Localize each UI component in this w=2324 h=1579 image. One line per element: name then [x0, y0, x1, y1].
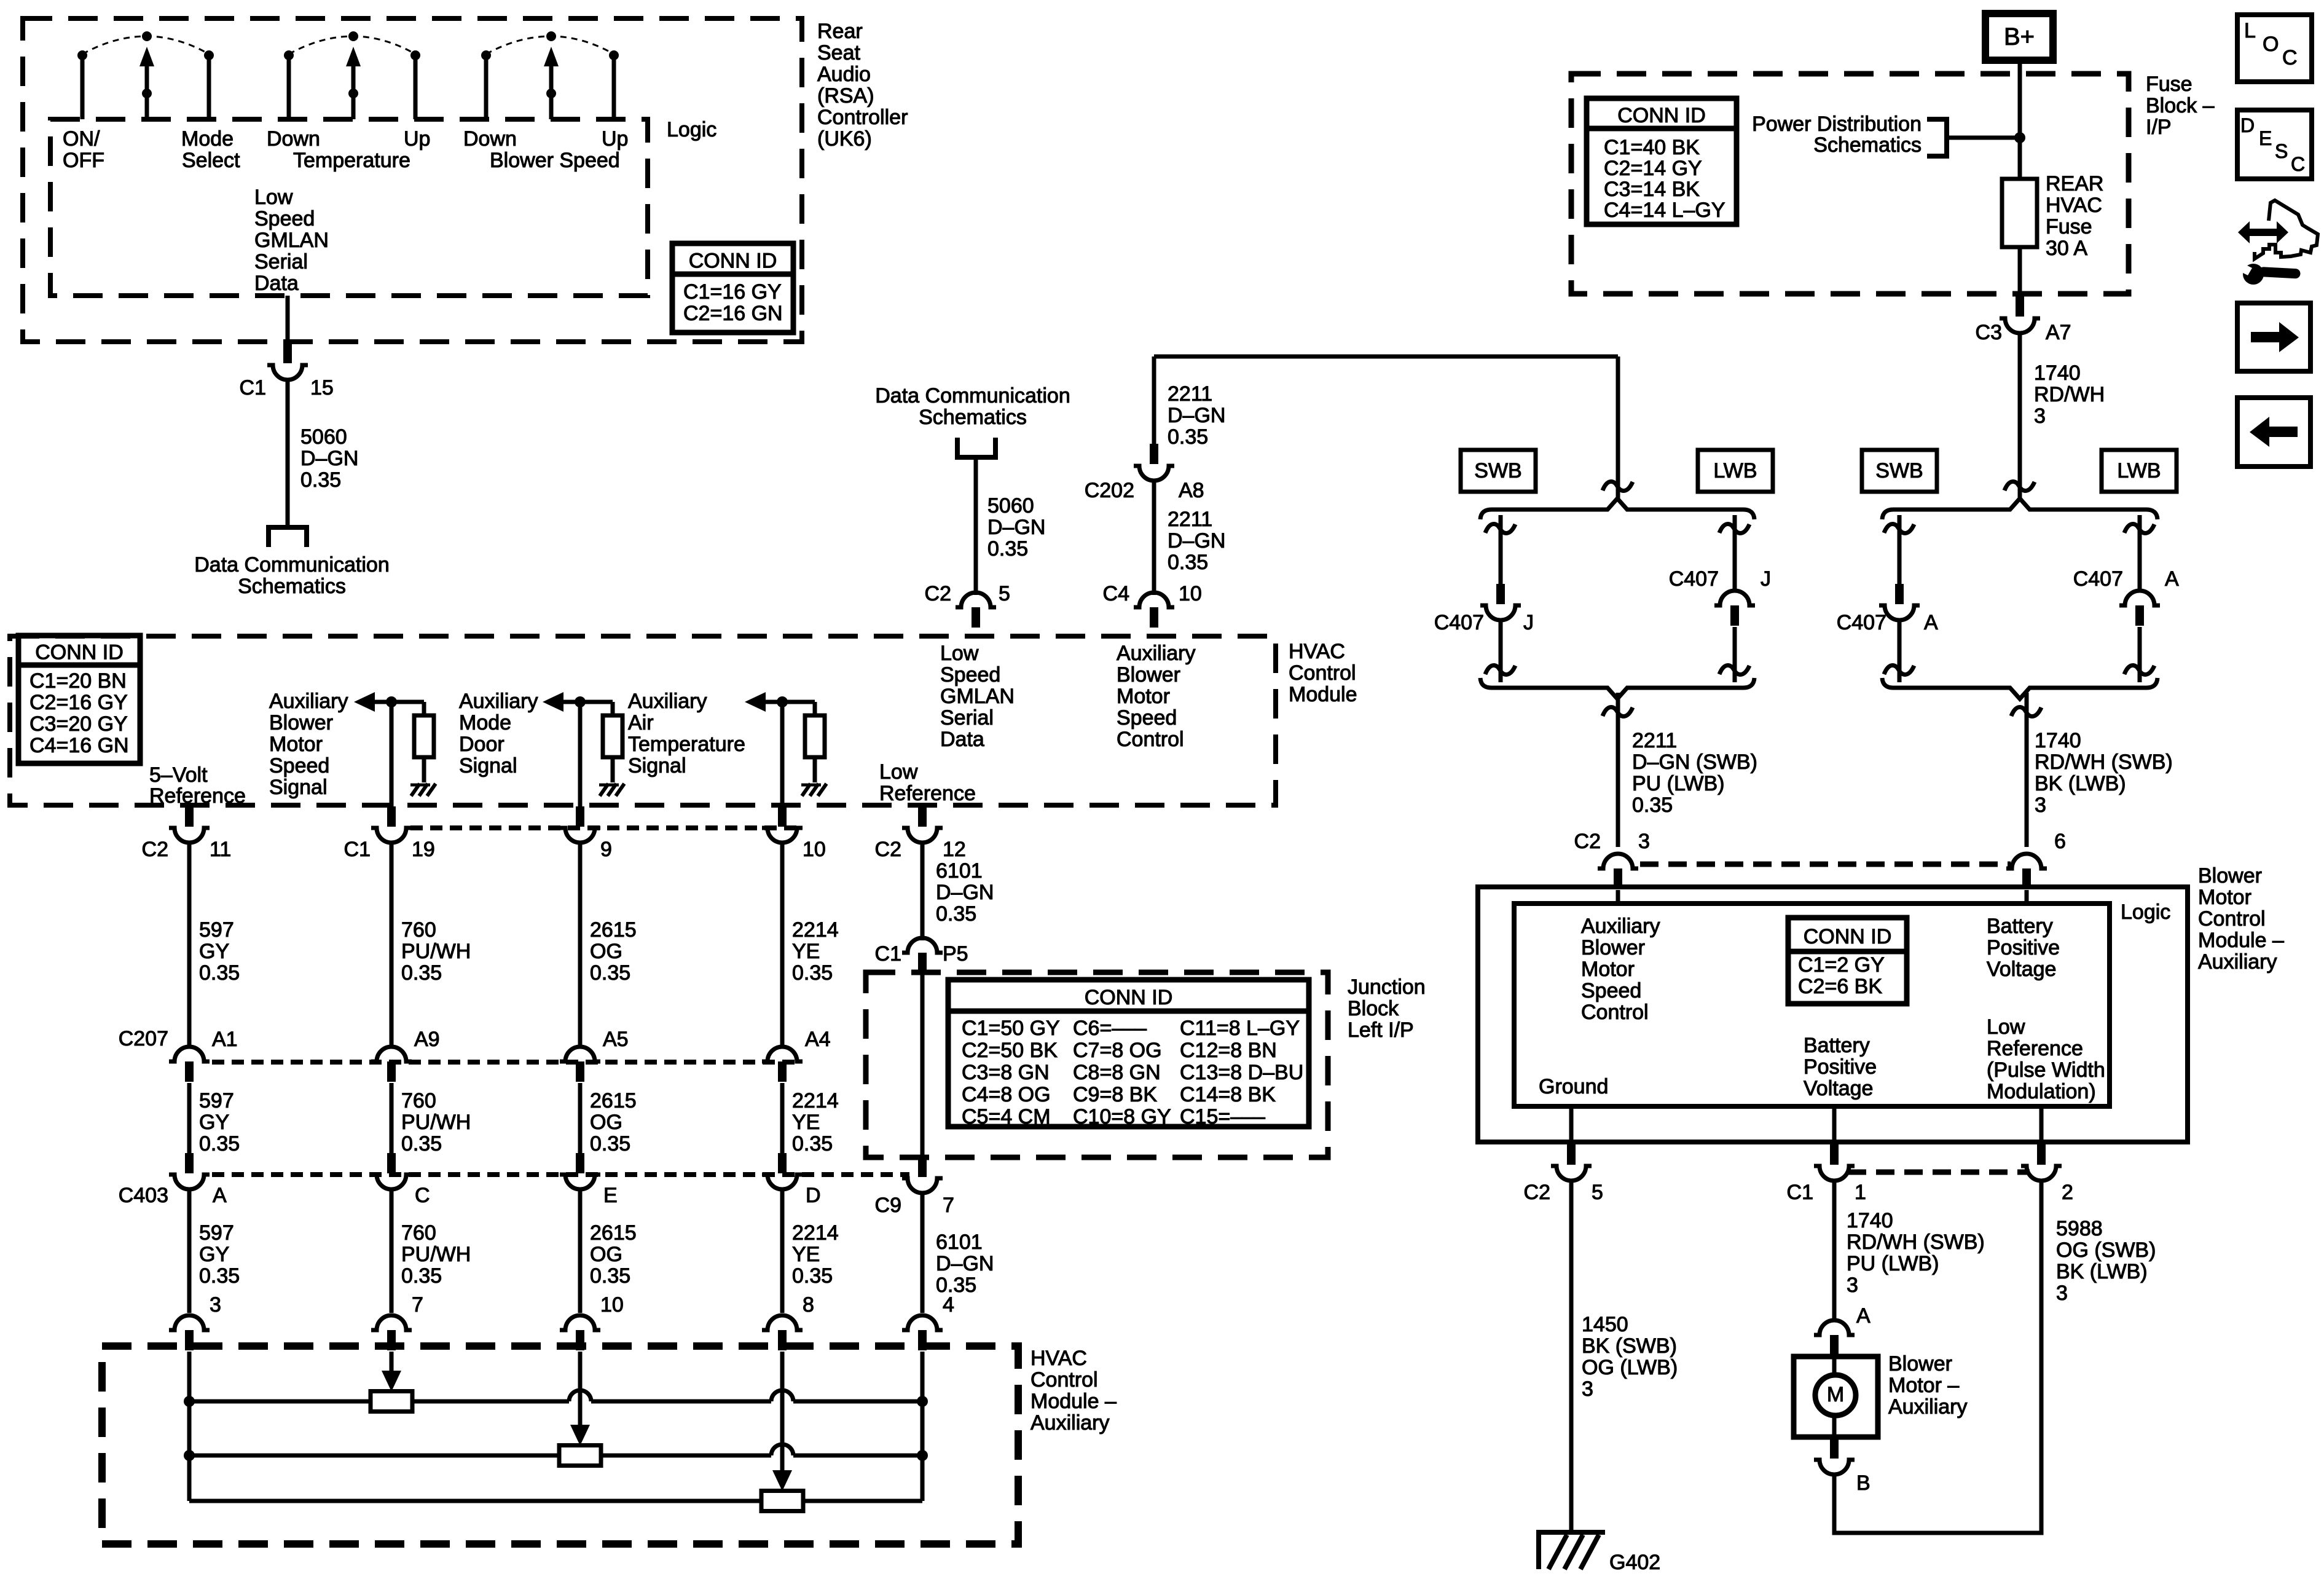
- svg-text:3: 3: [210, 1293, 221, 1317]
- svg-text:GY: GY: [199, 940, 229, 963]
- svg-text:CONN ID: CONN ID: [1804, 925, 1892, 948]
- wire 1 inside aux box: [187, 1352, 192, 1501]
- icon left-arrow box: [2237, 398, 2310, 467]
- connector row C403 dashed line: [212, 1172, 909, 1177]
- svg-text:2214: 2214: [792, 1089, 839, 1112]
- svg-text:C1: C1: [1787, 1181, 1813, 1204]
- svg-text:Positive: Positive: [1987, 936, 2060, 959]
- svg-text:C4=16 GN: C4=16 GN: [29, 734, 129, 757]
- svg-text:PU (LWB): PU (LWB): [1632, 772, 1724, 795]
- resistor pot 3: [761, 1491, 803, 1511]
- wire module out x=3322: [2039, 1106, 2044, 1144]
- connector C9 pin 7 (junction block): [918, 1157, 927, 1177]
- svg-text:2615: 2615: [590, 918, 637, 942]
- svg-text:Data: Data: [254, 272, 299, 295]
- connector blower pin 1: [1830, 1144, 1839, 1165]
- wire 6 into module: [2025, 890, 2029, 904]
- svg-text:D: D: [2240, 114, 2255, 136]
- svg-text:(UK6): (UK6): [817, 127, 872, 151]
- svg-text:597: 597: [199, 1089, 234, 1112]
- wire power distribution branch: [1947, 136, 2020, 140]
- motor M circle: [1815, 1375, 1856, 1416]
- svg-text:B+: B+: [2004, 23, 2035, 50]
- ground G402 symbol: [1536, 1530, 1605, 1535]
- svg-text:Speed: Speed: [269, 754, 329, 778]
- svg-text:Auxiliary: Auxiliary: [1888, 1395, 1967, 1419]
- resistor pot 1: [371, 1392, 412, 1412]
- svg-text:Auxiliary: Auxiliary: [1030, 1411, 1109, 1435]
- svg-text:Low: Low: [879, 760, 918, 784]
- svg-text:Control: Control: [1581, 1001, 1649, 1024]
- signal arrow+resistor+ground for wire 4: [745, 692, 766, 712]
- wire segment C9-7 down: [921, 1193, 925, 1313]
- svg-text:3: 3: [2056, 1282, 2068, 1305]
- svg-text:Down: Down: [267, 127, 320, 151]
- wire 4 into aux box: [780, 1352, 785, 1471]
- svg-text:30 A: 30 A: [2046, 237, 2087, 260]
- svg-text:A5: A5: [603, 1028, 629, 1051]
- connector C403 pin E: [576, 1153, 584, 1173]
- wire segment C207-C403 x=637: [390, 1083, 394, 1154]
- icon left-arrow: [2250, 417, 2298, 447]
- brace bottom 2: [1882, 678, 2157, 699]
- svg-text:A: A: [1924, 611, 1938, 634]
- svg-text:Blower: Blower: [1888, 1352, 1952, 1376]
- wire RSA serial data: [286, 296, 290, 343]
- wire 2 inside HVAC box: [390, 702, 394, 806]
- svg-text:Control: Control: [1289, 661, 1356, 685]
- svg-text:C9: C9: [875, 1194, 901, 1217]
- wire segment to C207 x=944: [578, 844, 583, 1045]
- svg-text:Voltage: Voltage: [1804, 1077, 1873, 1100]
- svg-text:PU (LWB): PU (LWB): [1847, 1252, 1939, 1275]
- connector HVAC-aux pin at x=637: [387, 1330, 396, 1350]
- LWB box 1: [1698, 450, 1773, 492]
- svg-text:1740: 1740: [2035, 729, 2081, 752]
- svg-text:CONN ID: CONN ID: [35, 641, 124, 664]
- svg-text:11: 11: [210, 838, 231, 861]
- svg-text:0.35: 0.35: [401, 1132, 442, 1156]
- svg-text:P5: P5: [943, 942, 968, 966]
- wire inside junction block: [921, 974, 925, 1156]
- svg-text:RD/WH (SWB): RD/WH (SWB): [2035, 750, 2173, 774]
- svg-text:C6=–––: C6=–––: [1073, 1017, 1147, 1040]
- icon right-arrow box: [2237, 303, 2310, 371]
- connector C1 pin P5 (junction block): [918, 953, 927, 973]
- svg-text:Blower Speed: Blower Speed: [490, 149, 620, 172]
- svg-text:Low: Low: [1987, 1015, 2025, 1039]
- svg-text:E: E: [2259, 127, 2272, 149]
- svg-text:C4: C4: [1103, 582, 1129, 605]
- svg-text:C13=8 D–BU: C13=8 D–BU: [1180, 1061, 1303, 1084]
- connector HVAC pin 9: [576, 806, 584, 827]
- dashed connector line C2-3 to 6: [1640, 862, 2011, 867]
- svg-text:2615: 2615: [590, 1089, 637, 1112]
- svg-text:Serial: Serial: [940, 706, 994, 730]
- svg-text:Blower: Blower: [269, 711, 333, 734]
- svg-text:C202: C202: [1085, 479, 1134, 502]
- svg-text:B: B: [1856, 1471, 1871, 1495]
- svg-text:0.35: 0.35: [300, 468, 341, 492]
- blower module outer box: [1478, 887, 2188, 1142]
- wire C407-A left upper: [1898, 515, 1902, 584]
- svg-text:Positive: Positive: [1804, 1055, 1877, 1079]
- fuse REAR HVAC rect: [2002, 179, 2037, 247]
- svg-text:0.35: 0.35: [199, 1264, 240, 1288]
- svg-text:2615: 2615: [590, 1221, 637, 1245]
- svg-text:RD/WH: RD/WH: [2034, 383, 2105, 406]
- connector C202 pin A8: [1150, 444, 1158, 464]
- svg-text:Data: Data: [940, 728, 984, 751]
- svg-text:C3=8 GN: C3=8 GN: [962, 1061, 1050, 1084]
- blower module logic box: [1514, 904, 2110, 1106]
- svg-text:Control: Control: [1030, 1368, 1098, 1392]
- connector C4 pin 10 (HVAC): [1150, 607, 1158, 628]
- svg-text:6101: 6101: [936, 859, 983, 883]
- wire segment C403-HVACaux x=944: [578, 1189, 583, 1313]
- svg-text:CONN ID: CONN ID: [1617, 104, 1706, 127]
- wire brace2 to pin6: [2025, 693, 2029, 847]
- HVAC control module dashed box: [10, 636, 1276, 805]
- svg-text:A4: A4: [805, 1028, 831, 1051]
- svg-text:Auxiliary: Auxiliary: [1117, 642, 1195, 665]
- svg-text:A9: A9: [414, 1028, 440, 1051]
- svg-text:Down: Down: [463, 127, 517, 151]
- svg-text:Junction: Junction: [1348, 975, 1426, 999]
- svg-text:Module –: Module –: [1030, 1390, 1117, 1413]
- wire motor loop: [1834, 1181, 2041, 1533]
- connector HVAC-aux pin at x=308: [185, 1330, 194, 1350]
- svg-text:2211: 2211: [1168, 382, 1212, 406]
- svg-text:D–GN: D–GN: [936, 1252, 994, 1275]
- svg-text:0.35: 0.35: [590, 961, 630, 985]
- hop line1 over wire4: [771, 1390, 793, 1401]
- svg-text:GY: GY: [199, 1243, 229, 1266]
- svg-text:C7=8 OG: C7=8 OG: [1073, 1039, 1162, 1062]
- junction block CONN ID table: [948, 980, 1309, 1127]
- svg-text:0.35: 0.35: [936, 1274, 976, 1297]
- svg-text:C403: C403: [119, 1184, 168, 1207]
- connector C403 pin A: [185, 1153, 194, 1173]
- svg-text:C1: C1: [344, 838, 371, 861]
- svg-text:3: 3: [1638, 830, 1650, 853]
- icon right-arrow: [2251, 322, 2299, 352]
- svg-text:GMLAN: GMLAN: [254, 229, 329, 252]
- svg-text:GMLAN: GMLAN: [940, 685, 1015, 708]
- svg-text:Fuse: Fuse: [2146, 73, 2192, 96]
- svg-text:OG (LWB): OG (LWB): [1582, 1356, 1678, 1379]
- svg-text:(Pulse Width: (Pulse Width: [1987, 1058, 2105, 1082]
- svg-text:5: 5: [1592, 1181, 1603, 1204]
- connector HVAC-aux pin at x=1273: [778, 1330, 787, 1350]
- connector HVAC pin 10: [778, 806, 787, 827]
- svg-text:E: E: [603, 1184, 618, 1207]
- connector C403 pin D: [778, 1153, 787, 1173]
- svg-text:Signal: Signal: [269, 776, 328, 799]
- wire 4 inside HVAC box: [780, 702, 785, 806]
- svg-text:2211: 2211: [1632, 729, 1677, 752]
- junction dot power dist: [2014, 132, 2025, 143]
- svg-text:Battery: Battery: [1804, 1034, 1870, 1057]
- svg-text:A1: A1: [212, 1028, 238, 1051]
- wire segment to C207 x=308: [187, 844, 192, 1045]
- icon DESC box: [2237, 110, 2312, 179]
- svg-text:0.35: 0.35: [1168, 425, 1208, 449]
- svg-text:Data Communication: Data Communication: [194, 553, 389, 577]
- svg-text:CONN ID: CONN ID: [689, 250, 777, 273]
- svg-text:Up: Up: [602, 127, 628, 151]
- svg-text:4: 4: [943, 1293, 954, 1317]
- svg-text:LWB: LWB: [1713, 459, 1757, 482]
- svg-text:0.35: 0.35: [792, 1264, 833, 1288]
- svg-text:Schematics: Schematics: [1813, 133, 1922, 157]
- icon LOC box: [2237, 15, 2312, 82]
- wire 3 into aux box: [578, 1352, 583, 1426]
- svg-text:YE: YE: [792, 1111, 820, 1134]
- aux bus line 3: [189, 1499, 922, 1503]
- svg-text:Blower: Blower: [2198, 864, 2262, 888]
- svg-text:C407: C407: [2073, 567, 2123, 591]
- svg-text:Schematics: Schematics: [919, 406, 1027, 429]
- svg-text:Modulation): Modulation): [1987, 1080, 2096, 1103]
- svg-text:0.35: 0.35: [792, 961, 833, 985]
- svg-text:BK (LWB): BK (LWB): [2035, 772, 2126, 795]
- svg-text:A: A: [2165, 567, 2179, 591]
- svg-text:J: J: [1761, 567, 1771, 591]
- svg-text:1: 1: [1855, 1181, 1866, 1204]
- svg-text:Speed: Speed: [1117, 706, 1177, 730]
- svg-text:C407: C407: [1669, 567, 1719, 591]
- blower CONN ID table: [1788, 918, 1907, 1004]
- svg-text:Schematics: Schematics: [238, 575, 346, 598]
- brace top 1: [1480, 498, 1754, 519]
- wire segment C2-12 to C1-P5: [921, 844, 925, 940]
- wire 3 inside HVAC box: [578, 702, 583, 806]
- svg-text:Ground: Ground: [1539, 1075, 1608, 1098]
- svg-text:Voltage: Voltage: [1987, 958, 2056, 981]
- svg-text:Reference: Reference: [149, 784, 246, 808]
- signal arrow+resistor+ground for wire 3: [543, 692, 563, 712]
- svg-text:C4=14 L–GY: C4=14 L–GY: [1604, 199, 1725, 222]
- connector C207 pin A9: [387, 1061, 396, 1082]
- svg-text:C3=20 GY: C3=20 GY: [29, 712, 128, 736]
- connector HVAC pin 12: [918, 806, 927, 827]
- svg-text:C207: C207: [119, 1027, 168, 1050]
- svg-text:C2=16 GN: C2=16 GN: [683, 302, 783, 325]
- svg-text:C2=16 GY: C2=16 GY: [29, 691, 128, 714]
- svg-text:M: M: [1827, 1383, 1844, 1406]
- HVAC control module auxiliary dashed box: [102, 1346, 1018, 1544]
- svg-text:SWB: SWB: [1875, 459, 1923, 482]
- svg-text:OFF: OFF: [63, 149, 104, 172]
- connector pin 6 (blower module): [2022, 868, 2031, 889]
- RSA logic inner dashed box: [50, 119, 648, 296]
- svg-text:Left I/P: Left I/P: [1348, 1018, 1414, 1042]
- wire 2211 lower: [1152, 481, 1156, 595]
- svg-text:L: L: [2244, 19, 2256, 42]
- connector C407 pin A (LWB): [2135, 605, 2144, 626]
- off-page symbol Data Communication (left): [269, 527, 307, 547]
- svg-text:1450: 1450: [1582, 1313, 1628, 1336]
- svg-text:9: 9: [600, 838, 612, 861]
- svg-text:C4=8 OG: C4=8 OG: [962, 1083, 1051, 1106]
- svg-text:3: 3: [2034, 404, 2046, 428]
- squiggle wire 1740: [2004, 481, 2035, 490]
- svg-text:Power Distribution: Power Distribution: [1752, 112, 1922, 136]
- switch Blower Speed: [484, 55, 489, 119]
- svg-text:OG: OG: [590, 940, 622, 963]
- svg-text:OG (SWB): OG (SWB): [2056, 1238, 2156, 1262]
- junction dot w5-line2: [917, 1450, 928, 1461]
- svg-text:C407: C407: [1837, 611, 1886, 634]
- svg-text:C407: C407: [1434, 611, 1484, 634]
- connector C207 pin A1: [185, 1061, 194, 1082]
- svg-text:10: 10: [803, 838, 826, 861]
- svg-text:PU/WH: PU/WH: [401, 940, 471, 963]
- svg-text:0.35: 0.35: [1168, 551, 1208, 574]
- svg-text:597: 597: [199, 918, 234, 942]
- connector HVAC-aux pin at x=944: [576, 1330, 584, 1350]
- svg-text:RD/WH (SWB): RD/WH (SWB): [1847, 1231, 1985, 1254]
- wire segment to C207 x=1273: [780, 844, 785, 1045]
- svg-text:C5=4 CM: C5=4 CM: [962, 1105, 1051, 1128]
- connector C407 pin J (LWB): [1730, 605, 1739, 626]
- svg-text:1740: 1740: [1847, 1209, 1893, 1232]
- svg-text:C2: C2: [875, 838, 901, 861]
- brace bottom 1: [1480, 678, 1754, 699]
- svg-text:C10=8 GY: C10=8 GY: [1073, 1105, 1171, 1128]
- signal arrow+resistor+ground for wire 2: [354, 692, 375, 712]
- svg-text:Air: Air: [628, 711, 654, 734]
- svg-text:Block –: Block –: [2146, 94, 2215, 117]
- aux bus line 1: [189, 1400, 569, 1404]
- connector C3 pin A7: [2016, 296, 2024, 317]
- arrow into resistor 3: [772, 1470, 792, 1491]
- icon vehicle with arrows and wrench: [2238, 221, 2288, 243]
- svg-text:0.35: 0.35: [936, 902, 976, 926]
- connector motor pin A: [1830, 1335, 1839, 1355]
- wire segment C403-HVACaux x=308: [187, 1189, 192, 1313]
- svg-text:Fuse: Fuse: [2046, 215, 2092, 238]
- svg-text:Temperature: Temperature: [628, 733, 745, 756]
- wire motor internal top: [1832, 1357, 1837, 1376]
- svg-text:5060: 5060: [300, 425, 347, 449]
- svg-text:C1=2 GY: C1=2 GY: [1798, 953, 1885, 977]
- svg-text:PU/WH: PU/WH: [401, 1243, 471, 1266]
- svg-text:Blower: Blower: [1117, 663, 1180, 687]
- junction dot w5-line1: [917, 1396, 928, 1407]
- svg-text:Low: Low: [254, 186, 293, 209]
- svg-text:D–GN: D–GN: [987, 516, 1045, 539]
- svg-text:A: A: [1856, 1304, 1871, 1328]
- svg-text:C: C: [2282, 46, 2298, 69]
- svg-text:C1=20 BN: C1=20 BN: [29, 669, 127, 693]
- svg-text:J: J: [1523, 611, 1534, 634]
- hop line1 over wire3: [569, 1390, 591, 1401]
- svg-text:10: 10: [600, 1293, 624, 1317]
- HVAC CONN ID table: [18, 636, 140, 763]
- svg-text:Select: Select: [182, 149, 240, 172]
- svg-text:D–GN: D–GN: [936, 881, 994, 904]
- wire motor internal bottom: [1832, 1415, 1837, 1437]
- svg-text:LWB: LWB: [2117, 459, 2161, 482]
- connector C207 pin A5: [576, 1061, 584, 1082]
- svg-text:Signal: Signal: [459, 754, 517, 778]
- svg-text:Auxiliary: Auxiliary: [1581, 915, 1660, 938]
- power distribution bracket: [1927, 119, 1947, 156]
- connector C207 pin A4: [778, 1061, 787, 1082]
- svg-text:C14=8 BK: C14=8 BK: [1180, 1083, 1276, 1106]
- wire C407-A left lower: [1898, 620, 1902, 682]
- svg-text:OG: OG: [590, 1243, 622, 1266]
- squiggle wire brace1: [1603, 481, 1633, 490]
- svg-text:C2: C2: [1524, 1181, 1550, 1204]
- svg-text:C2: C2: [925, 582, 951, 605]
- svg-text:C2: C2: [1574, 830, 1601, 853]
- svg-text:C12=8 BN: C12=8 BN: [1180, 1039, 1277, 1062]
- svg-text:6101: 6101: [936, 1231, 983, 1254]
- svg-text:0.35: 0.35: [199, 961, 240, 985]
- svg-text:Control: Control: [1117, 728, 1184, 751]
- resistor pot 2: [559, 1446, 601, 1466]
- svg-text:Auxiliary: Auxiliary: [2198, 950, 2277, 974]
- connector HVAC pin 11: [185, 806, 194, 827]
- svg-text:Battery: Battery: [1987, 915, 2053, 938]
- svg-text:Speed: Speed: [1581, 979, 1641, 1002]
- arrow into resistor 1: [382, 1371, 401, 1392]
- svg-text:Mode: Mode: [181, 127, 234, 151]
- wire C407-A right upper: [2138, 515, 2142, 591]
- svg-text:HVAC: HVAC: [1030, 1347, 1087, 1370]
- svg-text:C8=8 GN: C8=8 GN: [1073, 1061, 1161, 1084]
- svg-text:Logic: Logic: [2121, 900, 2170, 924]
- hop line2 over wire4: [771, 1444, 793, 1455]
- svg-text:REAR: REAR: [2046, 172, 2103, 195]
- svg-text:C9=8 BK: C9=8 BK: [1073, 1083, 1157, 1106]
- svg-text:Up: Up: [404, 127, 430, 151]
- wire segment C403-HVACaux x=1273: [780, 1189, 785, 1313]
- svg-text:597: 597: [199, 1221, 234, 1245]
- svg-text:5: 5: [999, 582, 1010, 605]
- svg-text:C2=14 GY: C2=14 GY: [1604, 157, 1702, 180]
- wire segment C207-C403 x=1273: [780, 1083, 785, 1154]
- svg-text:0.35: 0.35: [401, 961, 442, 985]
- svg-text:G402: G402: [1609, 1551, 1660, 1574]
- svg-text:YE: YE: [792, 1243, 820, 1266]
- SWB box 1: [1461, 450, 1536, 492]
- svg-text:C: C: [415, 1184, 430, 1207]
- svg-text:C3: C3: [1976, 321, 2002, 344]
- svg-text:S: S: [2275, 140, 2288, 162]
- svg-text:Low: Low: [940, 642, 979, 665]
- fuse block dashed box: [1571, 74, 2129, 294]
- svg-text:A7: A7: [2046, 321, 2071, 344]
- svg-text:760: 760: [401, 1221, 436, 1245]
- LWB box 2: [2102, 450, 2177, 492]
- wire 5 inside aux box: [921, 1352, 925, 1501]
- wire segment to C207 x=637: [390, 844, 394, 1045]
- svg-text:I/P: I/P: [2146, 116, 2172, 139]
- svg-text:15: 15: [310, 376, 334, 400]
- svg-text:2214: 2214: [792, 918, 839, 942]
- svg-text:Logic: Logic: [667, 118, 716, 141]
- junction dot w1-line1: [184, 1396, 195, 1407]
- svg-text:Door: Door: [459, 733, 504, 756]
- dashed connector line C1-1 to 2: [1848, 1170, 2030, 1175]
- svg-text:A8: A8: [1179, 479, 1204, 502]
- svg-text:ON/: ON/: [63, 127, 100, 151]
- svg-text:Rear: Rear: [817, 20, 863, 43]
